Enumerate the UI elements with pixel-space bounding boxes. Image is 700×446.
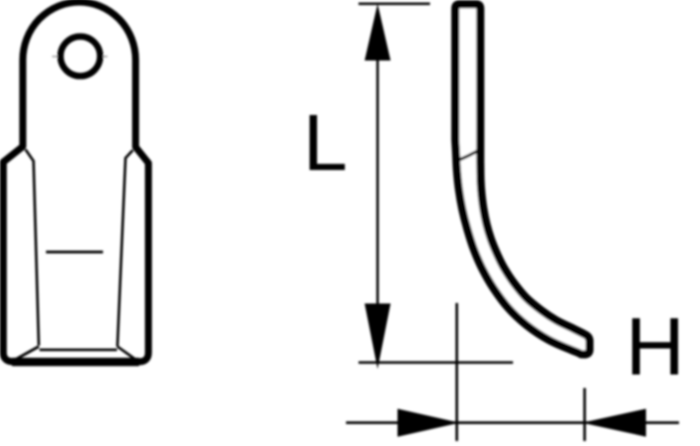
side view: transition line across blade xyxy=(456,149,481,161)
front view: middle mark line xyxy=(46,251,103,254)
front view: left inner edge line xyxy=(26,150,39,346)
front view: left chamfer diagonal xyxy=(13,347,39,361)
dimension H: right extension line xyxy=(583,388,586,441)
front view: right inner edge line xyxy=(117,150,132,346)
dimension H: left extension line xyxy=(455,303,458,441)
svg-text:L: L xyxy=(303,98,348,187)
dimension L: top arrowhead xyxy=(365,4,391,61)
side view: curved blade profile xyxy=(455,4,589,354)
dimension L: bottom arrowhead xyxy=(365,304,391,370)
svg-text:H: H xyxy=(626,302,685,393)
dimension L: dimension line xyxy=(376,58,379,306)
dimension L: bottom extension line xyxy=(359,361,514,364)
front view: right chamfer diagonal xyxy=(117,347,136,360)
front view: mounting hole xyxy=(61,37,101,77)
dimension H: left arrowhead xyxy=(398,409,460,437)
hole center tick left xyxy=(52,56,59,58)
front view: bottom edge (thicker) xyxy=(12,358,139,366)
front view: outer contour of blade body xyxy=(3,2,148,362)
front view: inner bottom edge line xyxy=(40,348,118,351)
dimension H: right arrowhead xyxy=(582,409,646,437)
dimension L: top extension line xyxy=(359,2,431,5)
dimension H: dimension line xyxy=(346,421,679,424)
hole center tick right xyxy=(101,56,108,58)
